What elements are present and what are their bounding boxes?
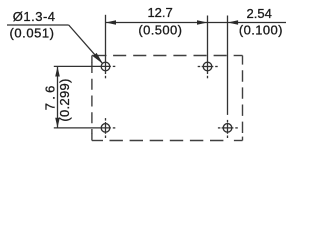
hole H2 top-right circle [203, 62, 212, 71]
leader arrowhead [93, 53, 103, 64]
svg-text:(0.100): (0.100) [239, 23, 283, 38]
arrowhead left-pointing for 2.54 [228, 20, 238, 25]
arrowhead right of 12.7 [197, 20, 207, 25]
arrowhead down of 7.6 [55, 118, 60, 128]
wire left edge [91, 134, 93, 141]
hole H3 crosshair + extension line [54, 118, 116, 138]
wire right edge [242, 56, 244, 65]
svg-text:(0.500): (0.500) [138, 23, 182, 38]
svg-text:2.54: 2.54 [247, 6, 272, 21]
dimension line vertical 7.6 [57, 66, 59, 128]
hole H4 bottom-right circle [223, 124, 232, 133]
hole H1 top-left circle [101, 62, 110, 71]
wire top edge [92, 55, 107, 57]
svg-text:(0.051): (0.051) [10, 26, 55, 41]
hole H2 crosshair + extension line [198, 16, 218, 79]
arrowhead up of 7.6 [55, 67, 60, 77]
svg-text:7.6: 7.6 [43, 82, 58, 110]
arrowhead left of 12.7 [106, 20, 116, 25]
hole H3 bottom-left circle [101, 124, 110, 133]
svg-text:(0.299): (0.299) [57, 78, 72, 121]
hole H1 crosshair + extension lines [54, 15, 116, 79]
leader line shelf for hole diameter callout [7, 25, 103, 63]
relay outline dashed rectangle [92, 56, 243, 141]
svg-text:12.7: 12.7 [147, 5, 172, 20]
svg-text:Ø1.3-4: Ø1.3-4 [13, 9, 56, 24]
dimension line horizontal (12.7 and 2.54) [106, 22, 287, 24]
hole H4 crosshair + extension line [218, 16, 238, 139]
wire bottom edge [234, 140, 243, 142]
